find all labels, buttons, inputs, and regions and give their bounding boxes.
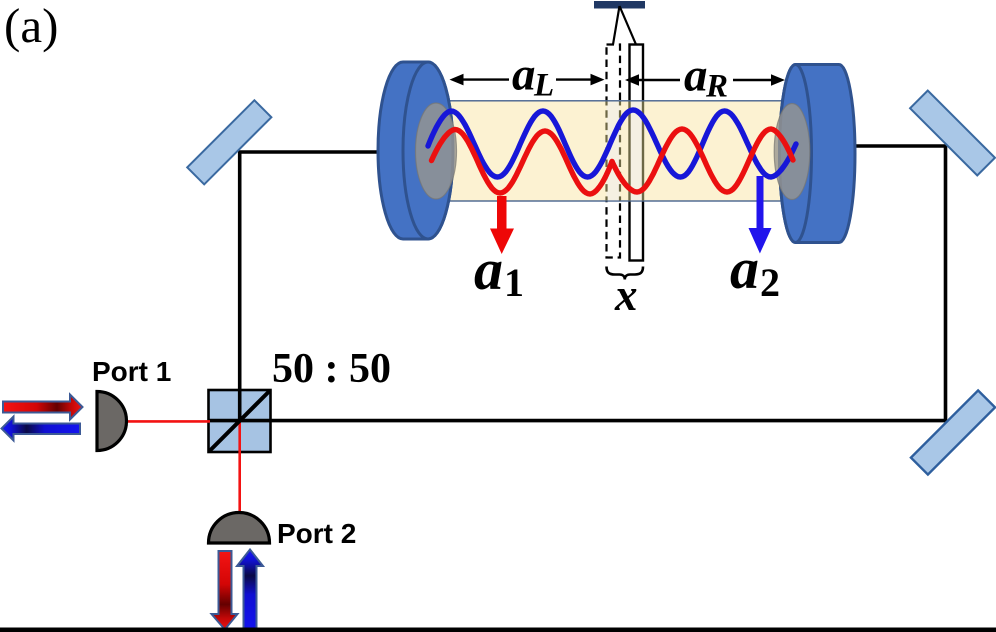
wire right: cavity to mirror TR, down to mirror BR, left to beamsplitter [209, 146, 946, 421]
wire left: mirror TL to beamsplitter [240, 152, 380, 421]
svg-text:L: L [533, 68, 554, 104]
svg-text:R: R [705, 69, 728, 105]
cavity mirror right (blue cylinder) [780, 65, 856, 243]
input arrow red (right) at Port 1 [3, 395, 83, 420]
mirror right coated face [774, 104, 810, 200]
svg-text:a: a [684, 50, 708, 102]
steering mirror top-right [910, 91, 995, 176]
red intracavity wave right of membrane [612, 129, 793, 192]
input arrow blue (up) at Port 2 [237, 550, 263, 632]
output arrow blue (left) at Port 1 [2, 417, 81, 441]
red beam to Port 2 [238, 421, 241, 513]
output arrow red (down) at Port 2 [212, 551, 238, 630]
svg-text:(a): (a) [4, 0, 58, 53]
membrane support bar [594, 1, 645, 9]
cavity mirror left (blue cylinder) [378, 62, 453, 239]
arrow a1 (red, down) [490, 196, 514, 254]
red intracavity wave left of membrane [432, 130, 613, 195]
membrane suspension lines [613, 6, 636, 45]
svg-text:a: a [512, 49, 536, 101]
svg-text:a: a [474, 237, 503, 302]
Port 1 detector [97, 392, 127, 451]
blue intracavity wave [428, 110, 796, 177]
arrow a_R right [733, 79, 773, 81]
svg-text:Port 1: Port 1 [92, 356, 171, 387]
mirror left coated face [416, 103, 457, 199]
beamsplitter diagonal [209, 391, 270, 452]
brace under membrane [607, 267, 644, 280]
svg-text:x: x [614, 270, 638, 320]
arrow a_L right [556, 78, 593, 80]
steering mirror bottom-right [911, 390, 995, 474]
beamsplitter cube [209, 390, 271, 452]
svg-text:2: 2 [760, 260, 780, 305]
arrow a_L left [461, 78, 509, 80]
svg-text:Port 2: Port 2 [277, 518, 356, 549]
membrane rest position (dashed) [607, 45, 621, 258]
red beam to Port 1 [126, 420, 210, 423]
arrow a_R left [631, 79, 680, 81]
membrane lines seen through mode volume (olive) [607, 102, 621, 201]
svg-text:a: a [730, 236, 759, 301]
svg-text:1: 1 [504, 260, 524, 305]
Port 2 detector [208, 513, 269, 544]
membrane displaced (solid) [630, 45, 644, 261]
steering mirror top-left [187, 100, 271, 184]
bottom border bar [0, 628, 996, 632]
cavity mode volume (cream band) [427, 101, 821, 201]
arrow a2 (blue, down) [749, 176, 772, 254]
svg-text:50 : 50: 50 : 50 [272, 346, 391, 392]
